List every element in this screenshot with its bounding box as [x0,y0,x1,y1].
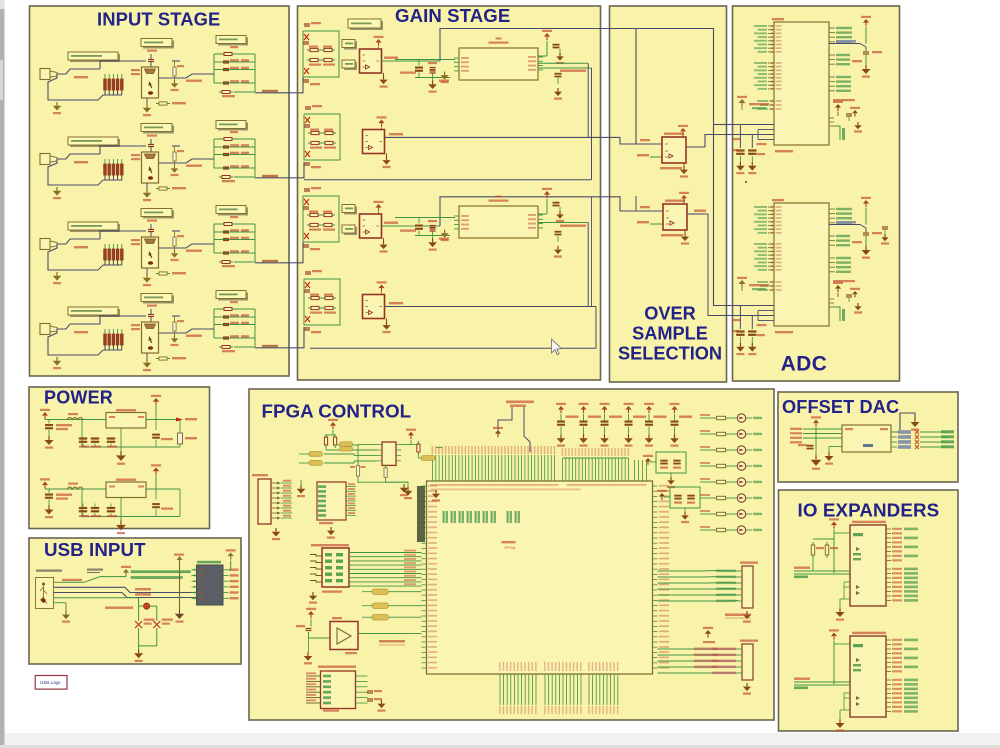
svg-text:INPUT STAGE: INPUT STAGE [97,9,220,30]
svg-text:POWER: POWER [44,388,113,408]
svg-text:FPGA CONTROL: FPGA CONTROL [262,400,412,421]
svg-text:OVER: OVER [644,304,696,324]
svg-text:SELECTION: SELECTION [618,344,722,364]
svg-text:GAIN STAGE: GAIN STAGE [395,5,510,26]
svg-text:SAMPLE: SAMPLE [632,324,708,344]
svg-text:ADC: ADC [781,353,828,376]
svg-text:IO EXPANDERS: IO EXPANDERS [798,500,940,521]
svg-text:FPGA: FPGA [505,545,516,550]
svg-text:USB Logo: USB Logo [40,680,61,685]
svg-text:OFFSET DAC: OFFSET DAC [782,397,899,417]
svg-text:USB INPUT: USB INPUT [44,539,146,560]
